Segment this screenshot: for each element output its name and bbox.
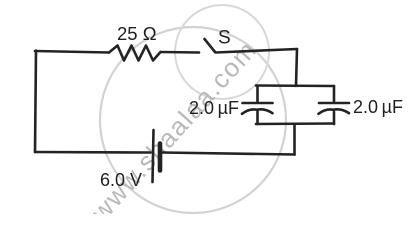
svg-text:25 Ω: 25 Ω — [117, 23, 157, 44]
battery long plate — [153, 130, 154, 182]
wire switch to right corner — [216, 49, 298, 53]
wire bottom left — [35, 151, 151, 154]
svg-text:2.0 µF: 2.0 µF — [353, 97, 403, 117]
switch S lever — [205, 39, 216, 52]
wire resistor to switch — [161, 51, 200, 54]
svg-text:2.0 µF: 2.0 µF — [189, 98, 239, 118]
watermark circle small — [175, 5, 269, 99]
right branch upper stub — [333, 86, 336, 102]
wire left vertical — [35, 51, 36, 153]
capacitor bank top bar — [256, 84, 334, 87]
wire bottom right — [163, 153, 295, 155]
resistor R 25 ohm zigzag — [109, 46, 161, 61]
watermark circle outer — [100, 27, 286, 213]
capacitor C2 top plate — [319, 102, 349, 105]
capacitor C1 top plate — [243, 102, 273, 105]
capacitor C2 bottom curved plate — [319, 109, 350, 113]
svg-text:S: S — [218, 28, 231, 49]
capacitor bank bottom bar — [256, 122, 334, 125]
right branch lower stub — [333, 112, 336, 124]
wire center stem down — [293, 124, 296, 155]
battery short thick plate — [158, 144, 163, 171]
svg-text:6.0 V: 6.0 V — [100, 170, 142, 190]
wire right vertical down to capacitor bank — [296, 49, 297, 86]
left branch upper stub — [256, 86, 259, 102]
left branch lower stub — [256, 112, 259, 125]
capacitor C1 bottom curved plate — [242, 109, 273, 113]
wire top left — [35, 51, 109, 53]
